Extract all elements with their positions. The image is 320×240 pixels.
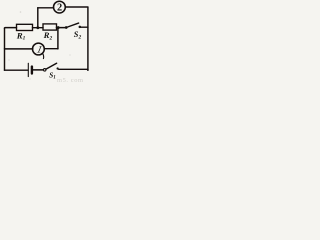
wire top branch to meter 2 — [38, 7, 54, 9]
battery long plate — [27, 63, 29, 76]
wire S2 to right side — [81, 26, 88, 28]
wire meter 2 to top-right corner — [65, 6, 88, 8]
wire R1 to node A — [33, 27, 44, 29]
meter 2 (ammeter) — [54, 1, 66, 13]
wire top branch vertical from node A — [37, 8, 39, 28]
resistor R1 — [17, 24, 33, 30]
battery short plate — [31, 67, 33, 74]
switch S2 contact dot — [79, 26, 82, 29]
switch S1 pivot dot — [43, 69, 46, 72]
svg-text:m5. com: m5. com — [57, 77, 84, 84]
switch S2 blade — [66, 23, 78, 27]
resistor R2 — [43, 24, 57, 30]
wire R2 to node B — [57, 27, 67, 29]
scan specks — [8, 11, 70, 79]
wire right vertical — [87, 7, 89, 70]
meter 1 rim flourish — [43, 53, 44, 58]
wire resistor-row left — [5, 27, 17, 30]
meter 1 (ammeter) — [33, 43, 45, 55]
wire S1 to bottom-right corner — [59, 68, 88, 71]
switch S1 blade — [46, 63, 57, 69]
switch S1 contact dot — [57, 67, 59, 69]
wire left vertical — [4, 28, 6, 70]
wire battery to switch S1 — [33, 69, 44, 71]
wire meter-1 row from left — [5, 48, 33, 50]
node B junction dot — [57, 26, 60, 29]
wire riser up to node B — [57, 28, 59, 49]
switch S2 pivot dot — [65, 26, 68, 29]
wire meter 1 to riser — [44, 48, 58, 50]
wire bottom row left — [5, 69, 29, 71]
svg-text:2: 2 — [57, 2, 62, 13]
node A junction dot — [36, 26, 39, 29]
label 1 in meter 1 — [36, 45, 44, 56]
